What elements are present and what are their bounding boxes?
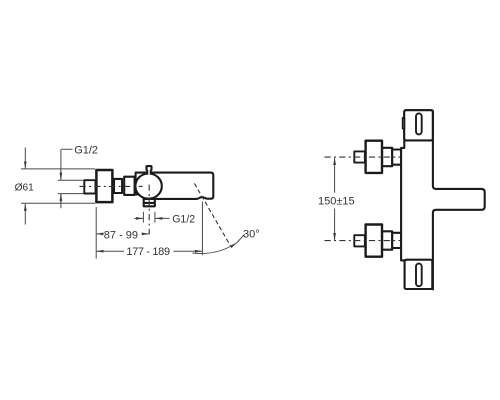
G1/2 dim arrow down (60, 171, 62, 180)
G1/2 leader (61, 149, 73, 208)
svg-text:87 - 99: 87 - 99 (104, 229, 138, 241)
spout angle 30 deg dashed line (194, 183, 230, 245)
check-valve housing step A (left view) (114, 179, 122, 193)
top escutcheon (front view) (366, 141, 382, 173)
svg-text:G1/2: G1/2 (172, 213, 195, 225)
ext line Ø61 top (21, 168, 95, 170)
ext line wall face vertical (95, 207, 97, 259)
ext line spout outlet vertical (201, 202, 203, 256)
centerline top inlet (front view) (325, 156, 401, 158)
ext line outlet left tick (142, 212, 144, 223)
svg-text:Ø61: Ø61 (15, 182, 35, 193)
top step A (front view) (382, 148, 392, 166)
top hot/cold nut (front view) (354, 151, 365, 162)
union nut step B (left view) (124, 177, 134, 195)
30 deg arc (193, 243, 237, 254)
outlet nut G1/2 (left view) (144, 203, 155, 206)
top handle clip tab (403, 118, 405, 129)
bottom hot/cold nut (front view) (354, 235, 365, 246)
svg-text:G1/2: G1/2 (74, 144, 98, 156)
G1/2 dim arrow up (60, 194, 62, 203)
centerline bottom inlet (front view) (325, 240, 401, 242)
bottom handle slot (416, 264, 422, 287)
dim line 177-189 right arrow (174, 250, 203, 252)
top handle (front view) (404, 110, 433, 140)
dim line Ø61 lower (24, 204, 26, 225)
escutcheon Ø61 (left view) (96, 170, 112, 202)
outlet shoulder right (154, 199, 156, 203)
valve body circle (left view) (135, 174, 161, 199)
svg-text:30°: 30° (243, 229, 260, 241)
top handle slot (416, 113, 422, 134)
svg-text:150±15: 150±15 (318, 196, 355, 208)
top step B (front view) (392, 150, 401, 165)
outlet G1/2 dim arrow right (134, 217, 143, 219)
centerline horizontal (left view) (80, 185, 143, 187)
svg-text:177 - 189: 177 - 189 (126, 246, 170, 258)
ext line nipple bottom (58, 193, 84, 195)
dim line 150+-15 upper arrow (334, 158, 336, 193)
ext line outlet right tick (154, 212, 156, 223)
knob stem (left view) (147, 166, 152, 175)
bottom step A (front view) (382, 231, 392, 249)
column right edge tail (432, 289, 434, 291)
wall nipple G1/2 (left view) (84, 180, 95, 193)
bottom handle (front view) (405, 260, 433, 289)
outlet shoulder left (143, 199, 145, 203)
faucet body column with spout arm (front view) (401, 110, 485, 288)
dim line 87-99 right arrow (143, 233, 149, 235)
dim line 87-99 left arrow (97, 233, 104, 235)
centerline vertical through outlet (left view) (148, 185, 150, 235)
outlet G1/2 dim arrow left with leader (155, 217, 169, 219)
ext line Ø61 bottom (21, 202, 95, 204)
dim line 150+-15 lower arrow (334, 208, 336, 240)
bottom escutcheon (front view) (366, 225, 382, 257)
dim line Ø61 upper (24, 148, 26, 169)
30 deg leader (237, 234, 245, 243)
bottom step B (front view) (392, 233, 401, 248)
dim line 177-189 left arrow (97, 250, 124, 252)
spout body block (left view) (136, 173, 214, 199)
ext line nipple top (58, 179, 84, 181)
